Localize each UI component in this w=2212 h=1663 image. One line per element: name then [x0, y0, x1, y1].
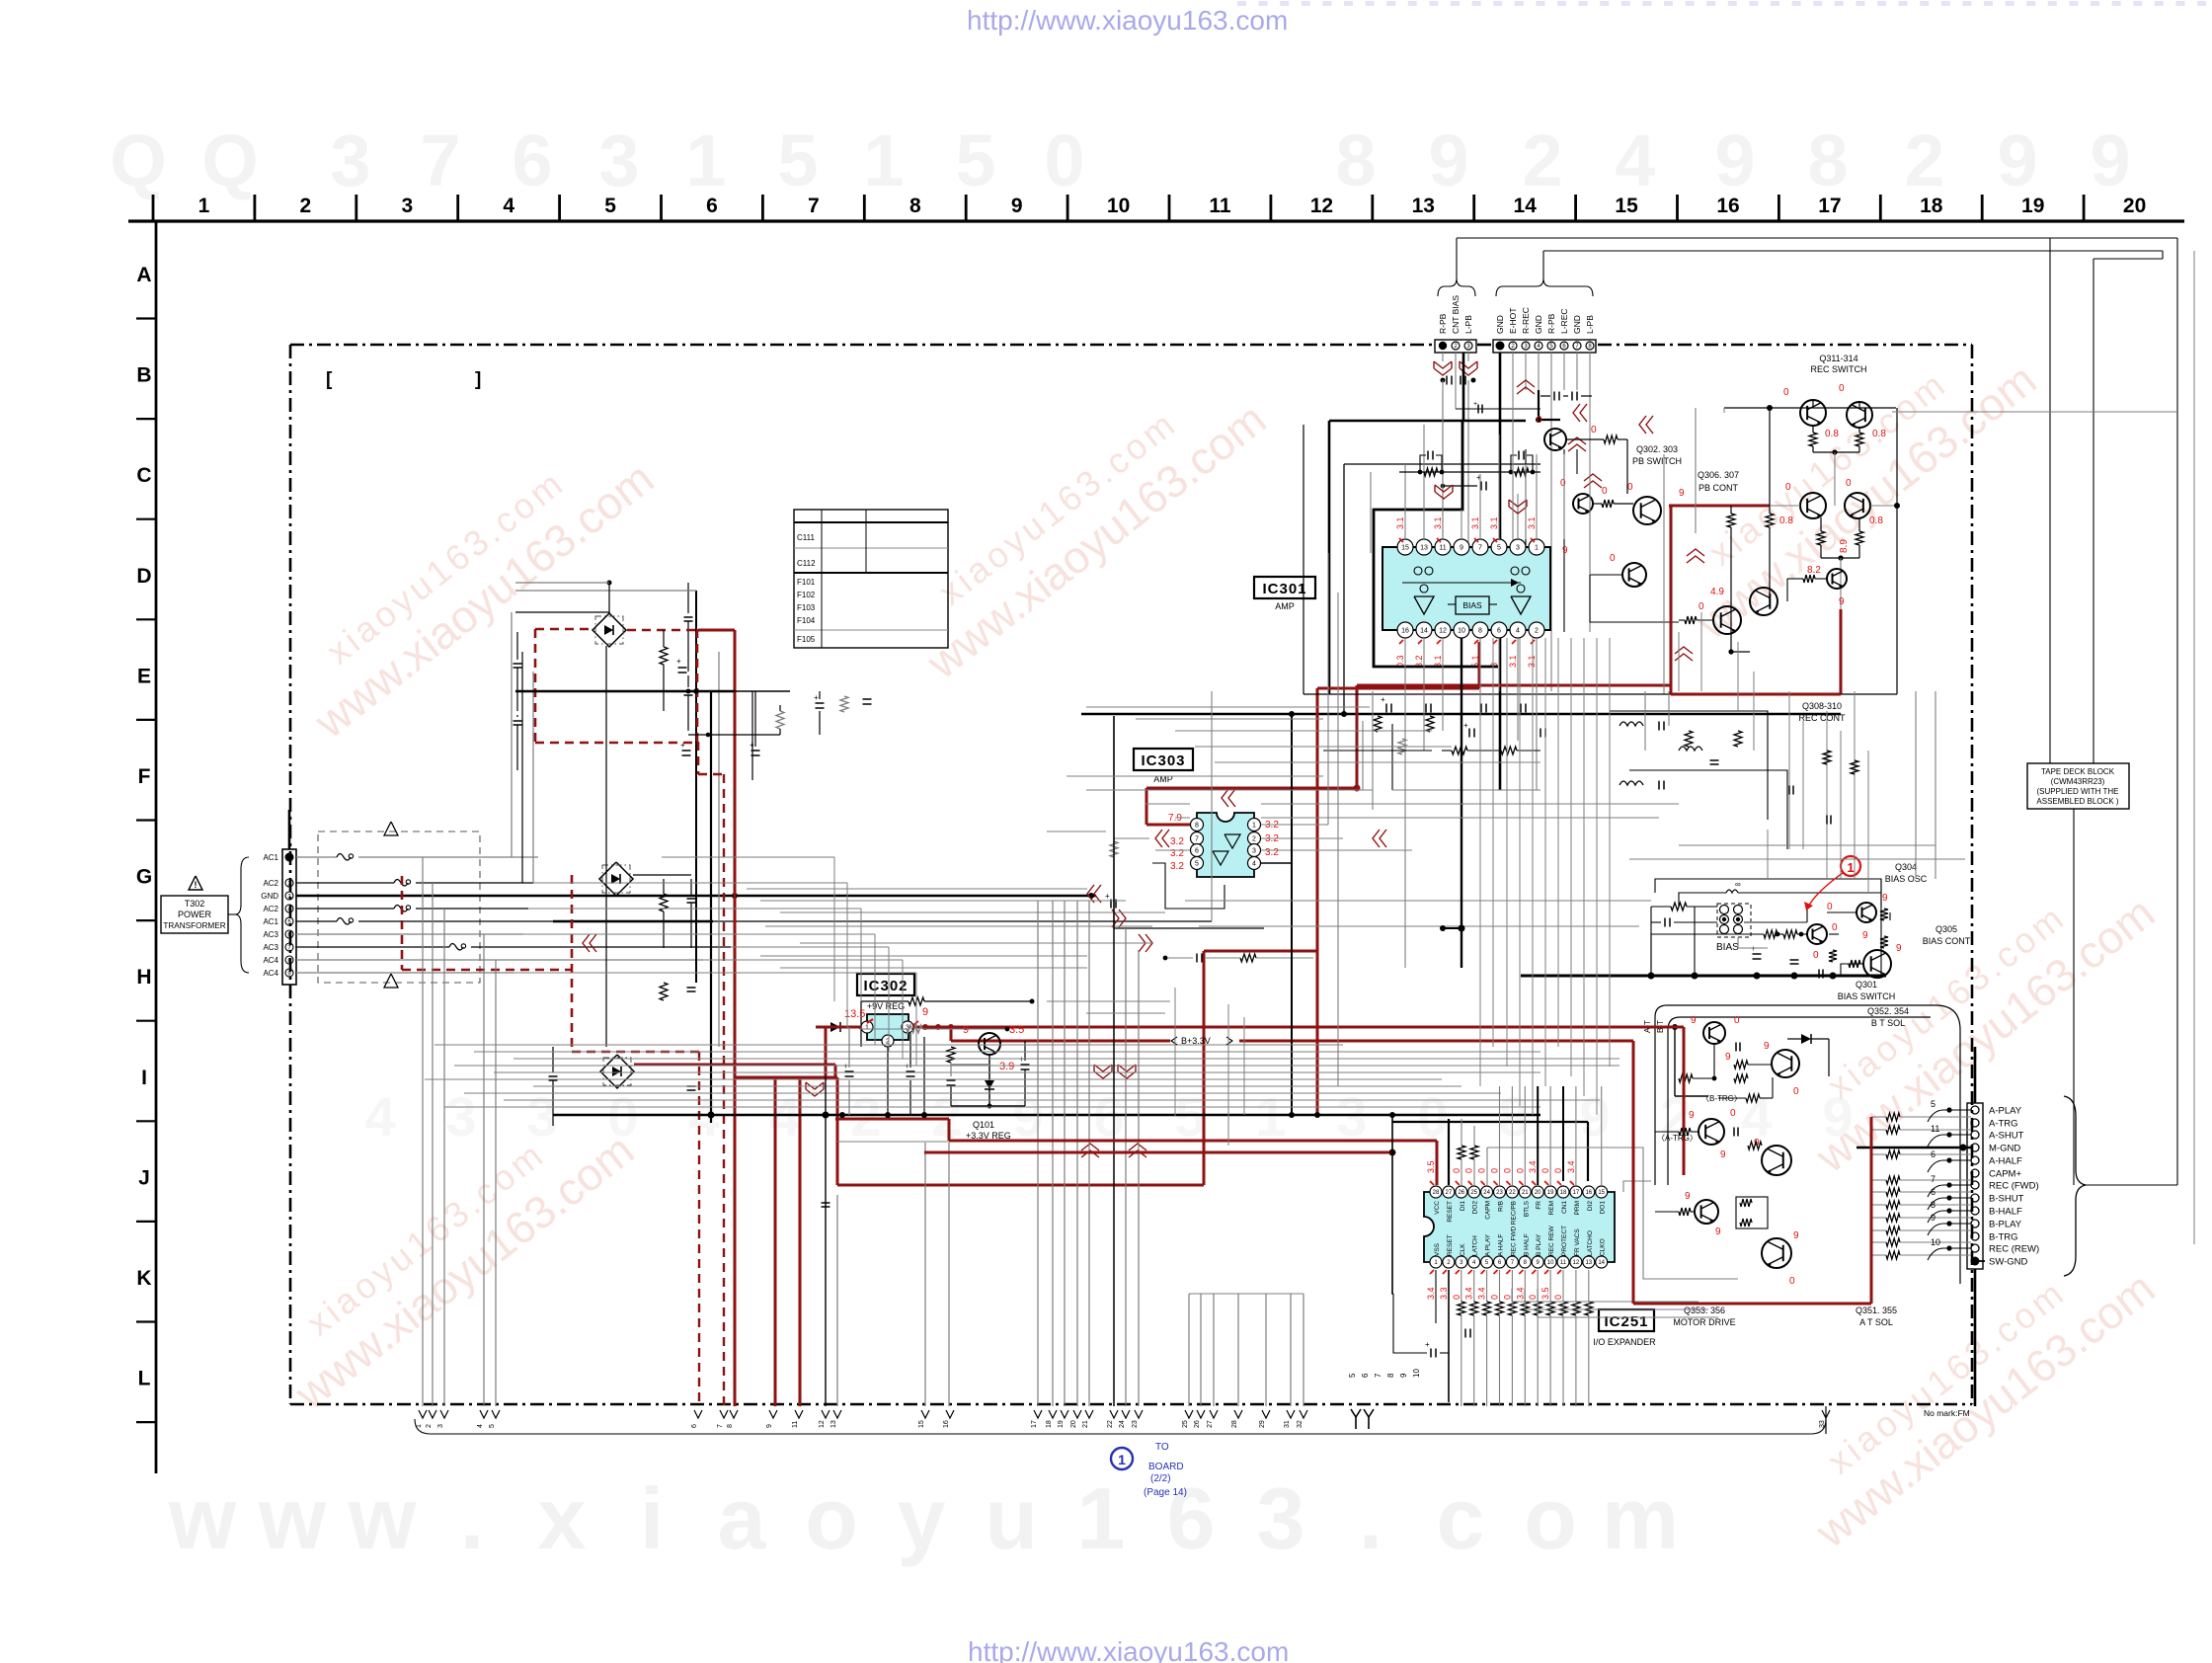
- IC303 pin 8: [1191, 819, 1204, 831]
- svg-text:3.1: 3.1: [1470, 516, 1480, 529]
- svg-text:CLK: CLK: [1460, 1243, 1466, 1256]
- CN303 pin 3: [1522, 342, 1530, 350]
- IC251 pin 15: [1596, 1186, 1608, 1198]
- resistor R104: [908, 997, 924, 1005]
- IC301 pin 10: [1454, 622, 1469, 638]
- svg-text:5: 5: [604, 195, 616, 217]
- svg-text:3.3: 3.3: [1439, 1287, 1449, 1300]
- left AC area vertical drops: [833, 857, 835, 1001]
- red vertical x1654: [1632, 1041, 1635, 1304]
- wire CN302 up loop: [1456, 238, 1458, 278]
- svg-text:B-TRG: B-TRG: [1989, 1232, 2018, 1243]
- IC302 pin 2: [882, 1035, 894, 1047]
- svg-text:+: +: [814, 693, 819, 702]
- pink diagonal watermarks: [276, 417, 663, 748]
- bottom pin 5: [492, 1410, 500, 1418]
- bottom pin 1: [419, 1410, 427, 1418]
- svg-text:Q306. 307: Q306. 307: [1698, 470, 1739, 480]
- svg-text:3: 3: [1336, 1085, 1367, 1148]
- transistor Q310: [1827, 569, 1847, 589]
- wires below IC301: [1404, 638, 1406, 968]
- thick black bus bias bottom: [1521, 975, 1886, 978]
- right connector pin B-PLAY: [1971, 1220, 1979, 1227]
- wires AC to drops: [662, 856, 834, 858]
- svg-text:K: K: [136, 1267, 151, 1290]
- wire T301 top loop: [1679, 893, 1726, 907]
- svg-text:11: 11: [1560, 1260, 1567, 1266]
- IC303 pin 7: [1191, 832, 1204, 845]
- svg-text:6: 6: [706, 195, 718, 217]
- wire to tape deck block second: [2049, 238, 2051, 763]
- resistor pair Q356: [1740, 1199, 1752, 1207]
- red dashed corner F row: [697, 742, 700, 774]
- svg-text:0.8: 0.8: [1779, 515, 1793, 526]
- svg-text:REC (FWD): REC (FWD): [1989, 1181, 2039, 1192]
- red dashed rail to pin6: [698, 1052, 700, 1406]
- black L wires below IC251: [1392, 1115, 1393, 1294]
- right connector pin B-TRG: [1971, 1232, 1979, 1240]
- svg-text:TAPE DECK BLOCK: TAPE DECK BLOCK: [2041, 767, 2115, 776]
- svg-text:L-PB: L-PB: [1463, 315, 1473, 334]
- right connector pin B-HALF: [1971, 1207, 1979, 1215]
- red rail second +3.3V: [951, 1040, 1170, 1043]
- svg-text:+: +: [750, 741, 754, 750]
- svg-text:7: 7: [1478, 545, 1482, 552]
- svg-text:i: i: [640, 1469, 664, 1567]
- svg-text:m: m: [1602, 1469, 1679, 1567]
- resistors B T SOL: [1679, 1074, 1693, 1082]
- red long feeds IC251: [949, 1140, 1368, 1143]
- bottom pin 33: [1822, 1410, 1830, 1418]
- svg-text:3.1: 3.1: [1395, 516, 1405, 529]
- svg-text:Q302. 303: Q302. 303: [1636, 444, 1678, 454]
- svg-text:E: E: [137, 665, 151, 687]
- right connector pin A-PLAY: [1971, 1106, 1979, 1114]
- black thick verticals right area: [1880, 879, 1882, 976]
- right connector pin SW-GND: [1971, 1257, 1980, 1266]
- thick L path to IC301: [1462, 353, 1465, 421]
- bottom pin 20: [1073, 1410, 1081, 1418]
- red chevron left of IC303: [1162, 830, 1169, 847]
- svg-text:4.9: 4.9: [1710, 587, 1724, 597]
- svg-text:ASSEMBLED BLOCK ): ASSEMBLED BLOCK ): [2036, 797, 2118, 806]
- bottom pin 8: [730, 1410, 738, 1418]
- svg-text:2: 2: [426, 1424, 433, 1428]
- svg-text:4: 4: [1615, 119, 1655, 201]
- svg-text:+: +: [1473, 401, 1477, 408]
- svg-text:8.2: 8.2: [1807, 565, 1821, 576]
- svg-text:0: 0: [1502, 1168, 1512, 1173]
- svg-text:2: 2: [1535, 628, 1539, 635]
- svg-text:15: 15: [1615, 195, 1638, 217]
- warning triangle fuse box bottom: [384, 974, 398, 988]
- svg-text:No mark:FM: No mark:FM: [1924, 1408, 1970, 1418]
- IC301 pin 13: [1416, 539, 1432, 555]
- svg-text:1: 1: [865, 1025, 869, 1032]
- svg-text:4: 4: [688, 1085, 719, 1148]
- svg-text:R-REC: R-REC: [1521, 307, 1531, 334]
- svg-text:0: 0: [1490, 1295, 1500, 1300]
- svg-text:15: 15: [918, 1420, 925, 1428]
- svg-text:Q353. 356: Q353. 356: [1684, 1306, 1725, 1315]
- IC251 label box: [1599, 1309, 1654, 1331]
- svg-text:0: 0: [1783, 387, 1789, 398]
- wire AC4b: [296, 972, 513, 974]
- IC251 pin 4: [1468, 1256, 1480, 1268]
- red vertical rails to bottom: [774, 1077, 777, 1406]
- bottom pin 13: [833, 1410, 841, 1418]
- CN303 pin 1: [1496, 342, 1505, 351]
- bottom pin 27: [1210, 1410, 1218, 1418]
- svg-text:o: o: [805, 1469, 858, 1567]
- svg-text:3.4: 3.4: [1566, 1160, 1576, 1173]
- IC301 pin 6: [1491, 622, 1507, 638]
- svg-text:GND: GND: [261, 892, 278, 901]
- svg-text:6: 6: [1167, 1469, 1216, 1567]
- svg-text:SW-GND: SW-GND: [1989, 1257, 2028, 1268]
- wires above IC301: [1404, 464, 1406, 539]
- transistor Q302: [1544, 429, 1566, 450]
- transistor Q351: [1762, 1238, 1791, 1268]
- red chevrons center: [1094, 885, 1101, 903]
- svg-text:AC4: AC4: [263, 969, 278, 978]
- inductor symbols mid: [1619, 722, 1643, 726]
- svg-text:BIAS: BIAS: [1462, 600, 1482, 610]
- svg-text:11: 11: [1931, 1124, 1939, 1134]
- svg-text:F105: F105: [797, 635, 816, 644]
- IC251 pin 26: [1456, 1186, 1467, 1198]
- svg-text:3.5: 3.5: [1540, 1287, 1550, 1300]
- wire web top left of IC301: [1211, 691, 1213, 921]
- svg-text:0.8: 0.8: [1869, 515, 1883, 526]
- CN303 pin 4: [1535, 342, 1542, 350]
- svg-text:9: 9: [1764, 1041, 1770, 1052]
- wire AC1 with fuse F101: [296, 856, 337, 858]
- thick wire above connector: [1974, 1047, 1977, 1103]
- svg-text:9: 9: [1715, 1227, 1721, 1237]
- svg-text:0: 0: [1464, 1168, 1474, 1173]
- svg-text:9: 9: [1882, 893, 1888, 904]
- resistors bias: [1764, 930, 1777, 938]
- svg-text:3.9: 3.9: [999, 1061, 1014, 1072]
- right connector body: [1967, 1103, 1983, 1269]
- svg-text:3.4: 3.4: [1528, 1160, 1538, 1173]
- IC301 pin 16: [1397, 622, 1413, 638]
- bottom pin 7: [720, 1410, 728, 1418]
- svg-text:A-TRG: A-TRG: [1989, 1119, 2018, 1130]
- svg-text:16: 16: [1716, 195, 1739, 217]
- resistor R101: [660, 647, 668, 665]
- svg-text:3.1: 3.1: [1489, 516, 1499, 529]
- red label arrows IC302: [867, 1019, 873, 1023]
- svg-text:C111: C111: [797, 533, 815, 542]
- wire AC3b with fuse F105: [296, 946, 449, 948]
- transistor Q352: [1703, 1022, 1725, 1044]
- svg-text:Q351. 355: Q351. 355: [1856, 1306, 1897, 1315]
- svg-text:AC2: AC2: [263, 879, 278, 888]
- svg-text:(SUPPLIED WITH THE: (SUPPLIED WITH THE: [2037, 787, 2119, 796]
- svg-text:w: w: [348, 1469, 417, 1567]
- transistor Q356: [1695, 1200, 1718, 1224]
- red chevron right of IC303: [1380, 830, 1386, 847]
- svg-text:12: 12: [1573, 1260, 1580, 1266]
- CN302 pin 2: [1452, 342, 1460, 350]
- diode D104: [830, 1022, 840, 1032]
- CN303 pin 7: [1573, 342, 1581, 350]
- diode bias switch: [1801, 1034, 1811, 1044]
- svg-text:REM: REM: [1548, 1201, 1555, 1215]
- svg-text:6: 6: [691, 1424, 698, 1428]
- svg-text:4: 4: [503, 195, 514, 217]
- zener diode D105: [985, 1080, 994, 1089]
- svg-text:31: 31: [1284, 1420, 1291, 1428]
- svg-text:B T SOL: B T SOL: [1871, 1018, 1905, 1028]
- extra verticals right edge: [2193, 251, 2195, 1244]
- svg-text:0: 0: [1537, 415, 1542, 426]
- svg-text:L-PB: L-PB: [1585, 315, 1595, 334]
- svg-text:B-SHUT: B-SHUT: [1989, 1194, 2024, 1205]
- svg-text:A PLAY: A PLAY: [1485, 1233, 1492, 1256]
- svg-text:GND: GND: [1534, 315, 1543, 334]
- resistors under Q313 Q314: [1817, 531, 1825, 545]
- IC251 pin 27: [1443, 1186, 1455, 1198]
- IC301 pin 1: [1529, 539, 1544, 555]
- svg-text:1: 1: [1847, 860, 1854, 875]
- svg-text:VCC: VCC: [1434, 1201, 1441, 1215]
- svg-text:8: 8: [1931, 1200, 1935, 1210]
- svg-text:7: 7: [717, 1424, 724, 1428]
- svg-text:8: 8: [1335, 119, 1376, 201]
- resistor R105: [947, 1047, 955, 1063]
- svg-text:o: o: [1524, 1469, 1577, 1567]
- svg-text:1: 1: [863, 119, 904, 201]
- svg-text:Q305: Q305: [1935, 924, 1957, 934]
- svg-text:9: 9: [1714, 119, 1755, 201]
- dash-dot border left: [289, 345, 292, 1404]
- svg-text:3.5: 3.5: [1426, 1160, 1436, 1173]
- svg-text:3.1: 3.1: [1527, 516, 1537, 529]
- svg-text:18: 18: [1920, 195, 1943, 217]
- svg-text:20: 20: [1535, 1190, 1541, 1196]
- svg-text:F: F: [138, 765, 151, 788]
- CN303 pin 8: [1586, 342, 1594, 350]
- svg-text:29: 29: [1259, 1420, 1266, 1428]
- svg-text:AC4: AC4: [263, 956, 278, 965]
- svg-text:A-PLAY: A-PLAY: [1989, 1106, 2022, 1117]
- CN303 pin 2: [1509, 342, 1517, 350]
- svg-text:3.2: 3.2: [1265, 847, 1279, 858]
- gray link Q101 base: [951, 1064, 989, 1066]
- wire AC1b with fuse F104: [296, 920, 337, 922]
- svg-text:13: 13: [830, 1420, 837, 1428]
- caps under IC302: [845, 1070, 854, 1072]
- IC301 label box: [1254, 577, 1315, 598]
- svg-text:IC251: IC251: [1604, 1313, 1648, 1330]
- svg-text:0: 0: [1832, 922, 1838, 933]
- svg-text:CLKO: CLKO: [1600, 1238, 1607, 1256]
- IC302 regulator body: [867, 1014, 908, 1040]
- chevrons PB area: [1580, 404, 1587, 422]
- svg-text:3.1: 3.1: [1433, 516, 1443, 529]
- resistor R102 R103 in D102 area: [660, 894, 668, 911]
- svg-text:0.8: 0.8: [1872, 429, 1886, 439]
- transistor Q306 darlington: [1633, 497, 1661, 524]
- svg-text:CAPM+: CAPM+: [1989, 1169, 2021, 1180]
- svg-text:2: 2: [1904, 119, 1944, 201]
- E row caps and resistors right of D101: [682, 750, 691, 752]
- svg-text:5: 5: [1931, 1099, 1935, 1109]
- cap C113 electrolytic: [947, 1079, 956, 1081]
- svg-text:4: 4: [1252, 861, 1256, 868]
- svg-text:IC301: IC301: [1262, 581, 1306, 597]
- long verticals IC251 zone: [1188, 1294, 1190, 1406]
- svg-text:1: 1: [1077, 1469, 1126, 1567]
- bottom pin 4: [480, 1410, 488, 1418]
- svg-text:13: 13: [1585, 1260, 1592, 1266]
- svg-text:+: +: [1463, 721, 1468, 730]
- svg-text:10: 10: [1931, 1237, 1940, 1247]
- verticals mid-left resistor: [907, 1025, 922, 1033]
- svg-text:0: 0: [1734, 1015, 1740, 1026]
- IC301 pin 3: [1510, 539, 1526, 555]
- IC251 pin 24: [1481, 1186, 1493, 1198]
- svg-text:2: 2: [1522, 119, 1562, 201]
- svg-text:28: 28: [1433, 1190, 1440, 1196]
- svg-text:9: 9: [1685, 1191, 1691, 1202]
- svg-text:AC3: AC3: [263, 930, 278, 939]
- black L wires under CN303: [1539, 419, 1560, 421]
- svg-text:27: 27: [1446, 1190, 1453, 1196]
- IC301 BIAS box: [1456, 596, 1489, 614]
- svg-text:LATCHO: LATCHO: [1587, 1230, 1594, 1256]
- right connector pin REC (REW): [1971, 1244, 1979, 1252]
- svg-text:w: w: [168, 1469, 237, 1567]
- IC301 body: [1382, 547, 1550, 630]
- svg-text:23: 23: [1496, 1190, 1503, 1196]
- red chevron above IC301 area: [1434, 485, 1436, 492]
- bias area left wires: [1650, 934, 1652, 976]
- resistor left of IC303: [1110, 841, 1118, 857]
- IC251 pin 3: [1456, 1256, 1467, 1268]
- svg-text:(CWM43RR23): (CWM43RR23): [2051, 777, 2105, 786]
- caps mid2: [1468, 729, 1470, 738]
- wires around IC303: [1261, 824, 1328, 826]
- svg-text:0: 0: [1452, 1168, 1461, 1173]
- red rail from D103: [634, 1064, 835, 1067]
- IC301 pin 15: [1397, 539, 1413, 555]
- transistor Q314: [1845, 493, 1870, 518]
- bottom pin 26: [1197, 1410, 1205, 1418]
- svg-text:0: 0: [1813, 950, 1819, 961]
- transistor Q313: [1800, 493, 1826, 518]
- svg-text:L: L: [138, 1368, 151, 1390]
- svg-text:1: 1: [685, 119, 726, 201]
- bottom pin 3: [440, 1410, 448, 1418]
- svg-text:B PLAY: B PLAY: [1536, 1233, 1542, 1256]
- red dashed link D102: [401, 876, 404, 970]
- svg-text:1: 1: [1118, 1452, 1126, 1467]
- svg-text:F104: F104: [797, 616, 816, 625]
- IC303 pin 3: [1248, 844, 1261, 857]
- cap C110: [816, 702, 825, 704]
- svg-text:C: C: [136, 464, 151, 487]
- wire AC4: [296, 959, 703, 961]
- svg-text:R-PB: R-PB: [1546, 313, 1556, 334]
- IC251 pin 28: [1430, 1186, 1442, 1198]
- svg-text:9: 9: [1679, 488, 1685, 499]
- thick black wire IC301 pin10 down: [1461, 638, 1462, 968]
- svg-text:0: 0: [1044, 119, 1084, 201]
- svg-text:TO: TO: [1155, 1442, 1169, 1453]
- bridge rectifier D102: [599, 862, 633, 896]
- wire stub above connector: [288, 841, 291, 849]
- svg-text:9: 9: [1725, 1052, 1731, 1063]
- svg-text:13: 13: [1412, 195, 1435, 217]
- red dashed link D101: [535, 628, 592, 631]
- wire top REC switch: [1724, 407, 1896, 409]
- thin wire y414 with cap: [1456, 408, 1540, 410]
- wire below tape deck block: [2073, 809, 2075, 1185]
- svg-text:18: 18: [1046, 1420, 1053, 1428]
- svg-text:7: 7: [420, 119, 460, 201]
- CN302 brace: [1438, 278, 1475, 296]
- svg-text:6: 6: [1195, 848, 1199, 855]
- gray horizontals below IC251 to right: [1512, 1289, 1698, 1302]
- cap C103: [684, 616, 693, 618]
- red chevrons under CN302: [1433, 361, 1435, 368]
- IC251 pin 14: [1596, 1256, 1608, 1268]
- IC302 pin 3: [902, 1021, 913, 1033]
- warning triangle fuse box top: [384, 822, 398, 835]
- red corner to J row: [836, 1077, 839, 1185]
- svg-text:27: 27: [1207, 1420, 1214, 1428]
- svg-text:BIAS OSC: BIAS OSC: [1885, 874, 1928, 884]
- cap C114 electrolytic: [1021, 1064, 1030, 1066]
- transistor Q355: [1762, 1146, 1791, 1175]
- resistor right of Q302: [1604, 436, 1618, 443]
- svg-text:8: 8: [727, 1424, 734, 1428]
- svg-text:3.4: 3.4: [1477, 1287, 1487, 1300]
- IC251 pin 1: [1430, 1256, 1442, 1268]
- red vertical IC301 pin8 to bus: [1478, 642, 1481, 688]
- IC251 pin 23: [1494, 1186, 1506, 1198]
- svg-text:0: 0: [1502, 1295, 1512, 1300]
- svg-text:7: 7: [808, 195, 820, 217]
- gray L y1156: [837, 1141, 949, 1143]
- transistor Q354: [1772, 1050, 1799, 1077]
- svg-text:M-GND: M-GND: [1989, 1144, 2020, 1154]
- svg-text:PRM: PRM: [1574, 1201, 1581, 1215]
- svg-text:+: +: [1105, 892, 1110, 901]
- caps resistors right mid2: [1823, 751, 1831, 764]
- svg-text:0: 0: [1515, 1168, 1525, 1173]
- wire from brace to top loop: [2086, 1184, 2177, 1186]
- svg-text:14: 14: [1514, 195, 1538, 217]
- svg-text:AC3: AC3: [263, 943, 278, 952]
- svg-text:B-HALF: B-HALF: [1989, 1207, 2022, 1218]
- svg-text:BTLS: BTLS: [1523, 1200, 1530, 1217]
- svg-text:B: B: [136, 364, 151, 387]
- svg-text:9: 9: [766, 1424, 773, 1428]
- IC303 body: [1197, 813, 1254, 877]
- bottom pin 21: [1085, 1410, 1093, 1418]
- right connector pin M-GND: [1971, 1144, 1979, 1151]
- wires CN303 down: [1512, 353, 1514, 390]
- bridge rectifier D101: [592, 613, 626, 647]
- red rail from D101: [627, 629, 698, 632]
- svg-text:GND: GND: [1495, 315, 1505, 334]
- left grid line: [155, 221, 158, 1473]
